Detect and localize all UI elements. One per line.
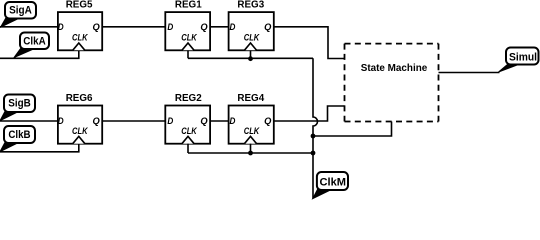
flag SigB (0, 95, 35, 121)
flag ClkA (14, 33, 49, 58)
wire REG2.CLK drop (187, 144, 189, 153)
wire REG1.CLK drop (187, 50, 189, 58)
wire REG2.Q to REG4.D (210, 120, 229, 122)
wire ClkA to REG5.CLK (0, 50, 79, 58)
svg-text:REG3: REG3 (237, 0, 264, 10)
wire REG5.Q to REG1.D (102, 26, 165, 28)
svg-text:D: D (229, 22, 235, 32)
wire REG4.CLK drop (250, 144, 252, 153)
svg-text:REG2: REG2 (175, 93, 202, 104)
flag ClkM (313, 172, 348, 199)
register REG2 (165, 93, 210, 144)
svg-text:Q: Q (92, 116, 100, 126)
wire state machine to Simul (439, 72, 500, 74)
wire REG6.Q to REG2.D (102, 120, 165, 122)
register REG5 (58, 0, 102, 50)
flag ClkB (0, 126, 35, 152)
flag Simul (499, 48, 539, 73)
svg-text:CLK: CLK (244, 32, 261, 42)
svg-text:State Machine: State Machine (361, 63, 428, 74)
svg-text:CLK: CLK (244, 126, 261, 136)
wire trunk to state machine bottom (313, 122, 392, 137)
svg-text:D: D (167, 22, 173, 32)
junction dot REG3 clock (248, 56, 253, 61)
register REG6 (58, 93, 102, 144)
svg-text:CLK: CLK (72, 32, 89, 42)
svg-text:REG6: REG6 (66, 93, 93, 104)
svg-text:D: D (229, 116, 235, 126)
svg-text:D: D (58, 116, 64, 126)
svg-text:SigB: SigB (8, 98, 31, 110)
svg-text:CLK: CLK (181, 126, 198, 136)
svg-text:REG1: REG1 (175, 0, 202, 10)
svg-text:Simul: Simul (509, 52, 537, 64)
svg-text:CLK: CLK (181, 32, 198, 42)
wire REG3.Q to state machine (274, 27, 345, 59)
svg-text:SigA: SigA (9, 5, 32, 17)
svg-text:ClkM: ClkM (320, 177, 347, 189)
wire REG4.Q to state machine (274, 106, 345, 121)
flag SigA (1, 2, 37, 27)
svg-text:REG5: REG5 (66, 0, 93, 10)
wire bottom clock bus (188, 152, 313, 154)
svg-text:REG4: REG4 (237, 93, 264, 104)
svg-text:Q: Q (92, 22, 100, 32)
svg-text:Q: Q (200, 22, 208, 32)
junction dot REG4 clock (248, 151, 253, 156)
svg-text:Q: Q (264, 116, 272, 126)
svg-text:D: D (167, 116, 173, 126)
wire SigA to REG5.D (0, 26, 58, 28)
state machine U1 (345, 44, 439, 122)
wire REG3.CLK drop (250, 50, 252, 58)
register REG4 (229, 93, 274, 144)
register REG3 (229, 0, 274, 50)
svg-text:ClkA: ClkA (23, 35, 45, 47)
svg-text:Q: Q (264, 22, 272, 32)
svg-text:Q: Q (200, 116, 208, 126)
wire ClkB to REG6.CLK (0, 144, 79, 152)
wire top clock bus (188, 57, 313, 59)
junction dot trunk to bottom clock bus (311, 151, 316, 156)
junction dot trunk to state machine branch (311, 134, 316, 139)
wire clock trunk with hop over REG4.Q (313, 58, 318, 198)
wire REG1.Q to REG3.D (210, 26, 229, 28)
wire SigB to REG6.D (0, 120, 58, 122)
register REG1 (165, 0, 210, 50)
svg-text:ClkB: ClkB (8, 129, 30, 141)
svg-text:D: D (58, 22, 64, 32)
svg-text:CLK: CLK (72, 126, 89, 136)
